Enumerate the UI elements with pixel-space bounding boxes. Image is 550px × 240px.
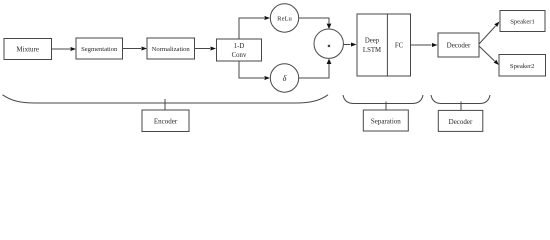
- svg-text:Speaker1: Speaker1: [510, 19, 535, 26]
- svg-text:δ: δ: [283, 74, 287, 83]
- wire delta to multiplier: [299, 59, 332, 78]
- svg-text:Segmentation: Segmentation: [81, 46, 118, 53]
- block Speaker1: [500, 11, 545, 32]
- wire 1-D Conv bottom to delta: [239, 61, 270, 80]
- block 1-D Conv: [217, 39, 262, 61]
- svg-text:Mixture: Mixture: [16, 46, 39, 54]
- svg-text:1-D: 1-D: [234, 43, 245, 50]
- label box Encoder: [142, 110, 189, 132]
- wire Decoder to Speaker2: [479, 46, 499, 65]
- brace Separation group: [343, 95, 423, 110]
- svg-text:Normalization: Normalization: [152, 46, 191, 53]
- wire Segmentation to Normalization: [123, 47, 148, 51]
- block Decoder: [438, 33, 479, 57]
- block Mixture: [4, 39, 52, 60]
- node ReLu: [270, 4, 298, 32]
- svg-text:Decoder: Decoder: [449, 118, 473, 126]
- wire ReLu to multiplier: [299, 18, 332, 29]
- svg-text:Speaker2: Speaker2: [510, 63, 535, 70]
- svg-text:Decoder: Decoder: [447, 42, 471, 50]
- svg-text:LSTM: LSTM: [363, 47, 381, 54]
- wire Mixture to Segmentation: [52, 47, 77, 51]
- node delta: [270, 64, 298, 92]
- svg-text:Separation: Separation: [371, 118, 401, 126]
- wire Decoder to Speaker1: [479, 22, 500, 45]
- brace Decoder group: [431, 95, 490, 110]
- wire Normalization to 1-D Conv: [195, 47, 217, 51]
- label box Separation: [363, 110, 408, 131]
- block Deep LSTM / FC: [357, 14, 411, 76]
- svg-text:ReLu: ReLu: [277, 15, 292, 22]
- block Speaker2: [499, 55, 546, 77]
- label box Decoder (bottom): [438, 110, 483, 131]
- wire 1-D Conv top to ReLu: [239, 16, 270, 39]
- wire multiplier to Deep LSTM: [343, 43, 356, 47]
- brace Encoder group: [3, 95, 329, 110]
- wire Deep LSTM to Decoder: [411, 43, 438, 47]
- svg-text:FC: FC: [395, 43, 404, 50]
- block Normalization: [147, 38, 195, 59]
- block Segmentation: [76, 38, 123, 59]
- svg-text:Deep: Deep: [365, 38, 380, 45]
- svg-text:Conv: Conv: [232, 52, 247, 59]
- node multiplier: [314, 29, 343, 58]
- svg-text:Encoder: Encoder: [154, 118, 178, 126]
